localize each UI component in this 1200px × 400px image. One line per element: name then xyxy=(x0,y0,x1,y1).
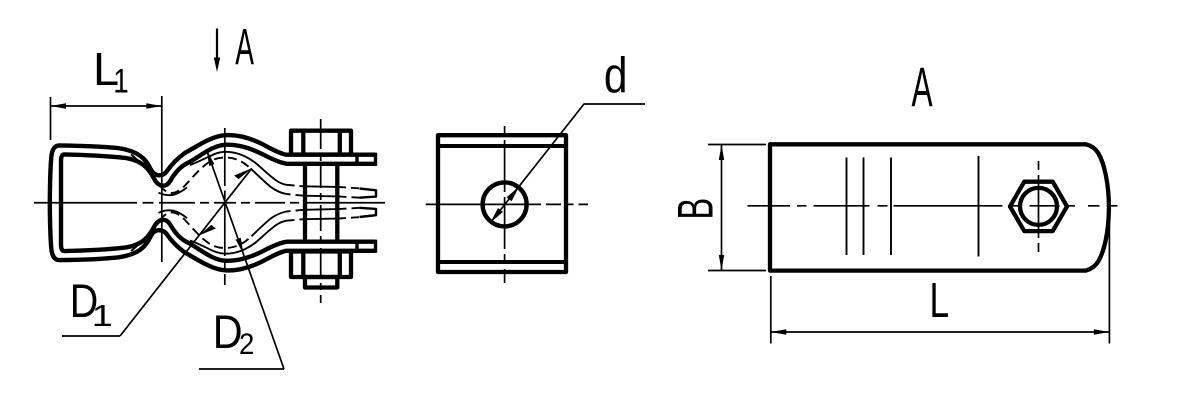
plate outline xyxy=(438,135,566,272)
plate bottom fold line xyxy=(438,260,566,264)
svg-text:L: L xyxy=(930,273,950,328)
wire: horizontal centerline of left view xyxy=(34,202,385,204)
svg-text:D: D xyxy=(213,307,243,359)
clamp outer contour xyxy=(50,135,376,203)
bolt shank circle xyxy=(1020,188,1057,225)
cable line: dashes to tongue xyxy=(338,187,360,189)
wire: vertical centerline through saddle center xyxy=(224,128,226,285)
dimension L1: left arrowhead xyxy=(51,103,67,108)
dimension L: left arrowhead xyxy=(771,329,787,334)
svg-text:d: d xyxy=(604,47,628,103)
dimension d: lower-left arrowhead xyxy=(490,208,503,223)
neck trough thin curve xyxy=(159,187,188,195)
bolt shaft left edge xyxy=(303,166,307,241)
clamp body lower half (mirror) xyxy=(50,203,376,271)
label D1 xyxy=(70,276,99,328)
cable line: solid across bolt lower xyxy=(304,195,339,198)
svg-text:A: A xyxy=(912,56,934,119)
dimension D1: upper-right arrowhead xyxy=(234,168,252,179)
cable line: dashes left of bolt lower xyxy=(287,194,304,196)
dimension B: bottom arrowhead xyxy=(719,255,724,271)
plate vertical centerline xyxy=(504,126,506,283)
dimension B: top arrowhead xyxy=(719,145,724,161)
strip end edge line xyxy=(978,156,980,257)
tongue outline xyxy=(360,189,377,198)
bar divider xyxy=(355,155,358,164)
dimension L: right extension line xyxy=(1108,212,1110,344)
dashed cable contour (curve B) xyxy=(131,155,252,194)
dimension D1: leader/dimension line xyxy=(120,168,252,336)
dimension B: bottom extension line xyxy=(708,270,766,272)
label L1 xyxy=(93,43,119,94)
svg-text:B: B xyxy=(667,198,723,220)
dimension L1: right arrowhead xyxy=(146,103,162,108)
svg-text:A: A xyxy=(235,19,254,76)
view direction arrow A: shaft xyxy=(216,29,218,60)
bolt shaft right edge xyxy=(335,166,339,241)
dimension L1: left extension line xyxy=(50,97,52,140)
dimension L1: dimension line xyxy=(51,105,162,107)
dimension d: leader line xyxy=(491,104,645,222)
curve B solid flank xyxy=(252,169,287,194)
dimension d: upper-right arrowhead xyxy=(507,186,520,201)
thin solid saddle arc (curve A) xyxy=(190,152,287,185)
dimension D2: leader/dimension line xyxy=(207,150,285,370)
right view outline xyxy=(770,144,1109,270)
hole circle xyxy=(483,182,527,226)
dimension L: left extension line xyxy=(770,276,772,344)
bottom nut xyxy=(291,252,351,278)
dimension D2: top arrowhead xyxy=(207,150,215,167)
bottom nut facet lines xyxy=(303,252,340,278)
dimension B: dimension line xyxy=(721,145,723,271)
dimension D1: lower-left arrowhead xyxy=(198,225,216,236)
dimension D1: underline xyxy=(62,335,120,337)
bar right end edge xyxy=(374,153,377,166)
label A (right view) xyxy=(912,56,934,119)
svg-text:1: 1 xyxy=(113,62,129,100)
cable line: dashes from tongue xyxy=(338,196,360,197)
clamp inner contour xyxy=(61,145,376,203)
bend line 3 xyxy=(890,158,892,256)
bolt tip below nut xyxy=(305,277,337,288)
hex bolt head xyxy=(1010,182,1067,231)
bend line 1 xyxy=(846,158,848,256)
plate horizontal centerline xyxy=(426,203,588,205)
label D2 xyxy=(213,307,243,359)
label A (view arrow) xyxy=(235,19,254,76)
svg-text:2: 2 xyxy=(239,328,254,361)
view direction arrow A: head xyxy=(214,58,220,73)
svg-text:1: 1 xyxy=(92,299,113,333)
cable hidden line: dashes left of bolt xyxy=(287,185,304,187)
cable line: solid across bolt xyxy=(304,185,339,188)
bend line 2 xyxy=(863,158,865,256)
dimension L: right arrowhead xyxy=(1094,329,1110,334)
dimension D2: bottom arrowhead xyxy=(236,238,244,255)
top nut facet lines xyxy=(303,131,340,155)
top nut xyxy=(291,131,351,155)
dimension L1: right extension line xyxy=(161,96,163,262)
clamp body upper half xyxy=(50,135,376,203)
right view horizontal centerline xyxy=(748,205,1128,207)
dimension L: dimension line xyxy=(771,331,1110,333)
dimension B: top extension line xyxy=(708,144,766,146)
plate top fold line xyxy=(438,144,566,148)
wire: bolt vertical centerline xyxy=(320,119,322,303)
bolt vertical centerline xyxy=(1038,161,1040,252)
label B (rotated) xyxy=(667,198,723,220)
dimension D2: underline xyxy=(199,368,284,370)
label d xyxy=(604,47,628,103)
label L xyxy=(930,273,950,328)
